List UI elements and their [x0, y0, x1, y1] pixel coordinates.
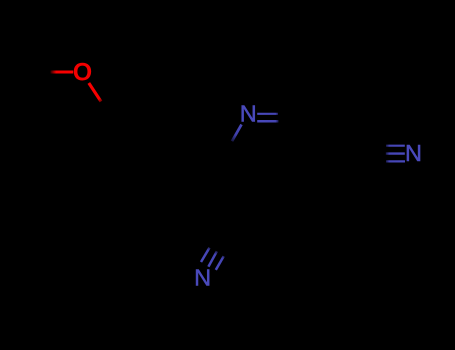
- wire: right nitrile C#N triple bond top line (blue half): [386, 145, 405, 147]
- svg-text:O: O: [73, 59, 92, 87]
- wire: bottom nitrile C#N triple bond right line (blue half): [216, 256, 224, 270]
- wire: pyridine N1=C double bond lower line (blue half): [257, 120, 278, 123]
- wire: pyridine N1=C double bond upper line (blue half): [257, 113, 278, 115]
- wire: methyl CH3 to O bond (red half): [51, 70, 74, 73]
- svg-text:N: N: [194, 265, 211, 291]
- wire: right nitrile C#N triple bond bottom line (blue half): [386, 160, 405, 162]
- wire: pyridine N1-C2 single bond stub (blue half): [232, 125, 242, 142]
- wire: bottom nitrile C#N triple bond left line (blue half): [201, 248, 210, 262]
- wire: O to aryl ring bond (red half): [89, 83, 101, 102]
- wire: bottom nitrile C#N triple bond middle line (blue half): [208, 251, 217, 266]
- svg-text:N: N: [240, 101, 257, 127]
- wire: right nitrile C#N triple bond middle line (blue half): [386, 152, 405, 154]
- svg-text:N: N: [405, 140, 422, 166]
